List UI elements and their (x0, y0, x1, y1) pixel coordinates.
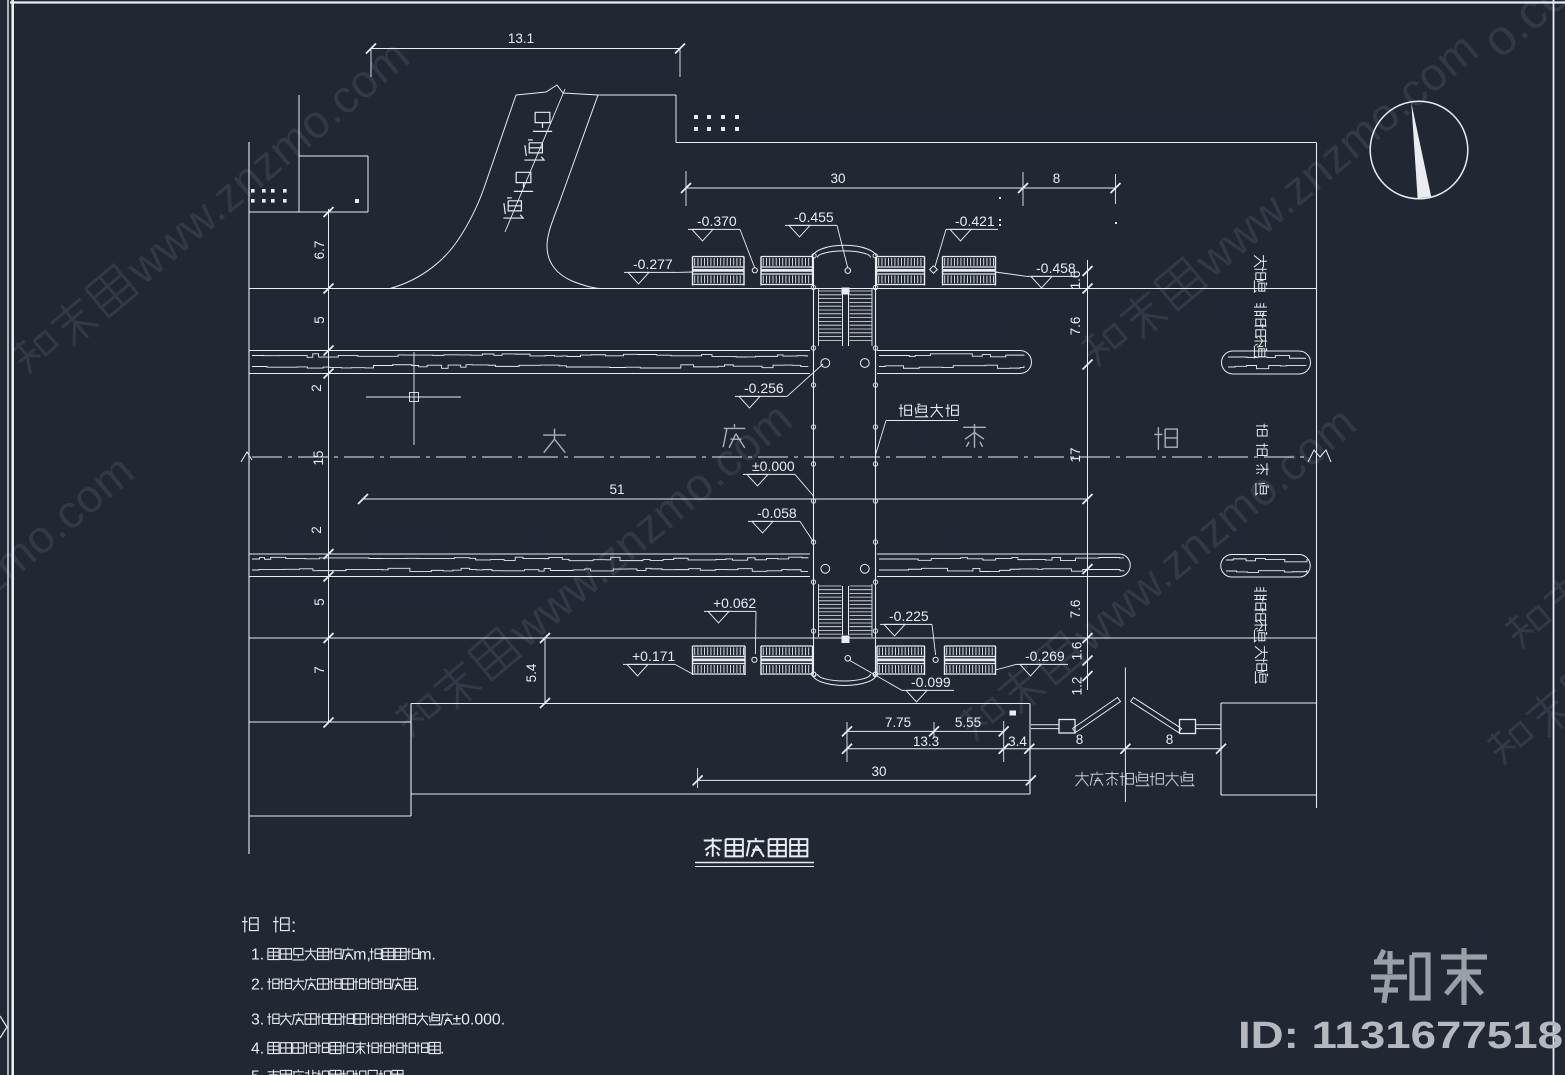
svg-text:17: 17 (1068, 447, 1083, 462)
svg-text:2: 2 (309, 526, 324, 534)
svg-text:±0.000.: ±0.000. (453, 1012, 506, 1029)
svg-text:±0.000: ±0.000 (752, 458, 795, 474)
svg-text:2: 2 (309, 384, 324, 392)
railing top-left A (693, 257, 745, 286)
school gate left leaf (1073, 698, 1121, 733)
school gate right leaf (1131, 698, 1182, 733)
watermark tiles (0, 0, 1565, 802)
sidewalk line left (248, 142, 250, 854)
school gate center line (1124, 668, 1126, 803)
street name 肖家台巷 (503, 112, 552, 218)
railing bottom-right C (877, 646, 925, 675)
svg-text:7.6: 7.6 (1068, 317, 1083, 336)
bridge stairs bottom (819, 584, 873, 643)
svg-text:-0.058: -0.058 (757, 505, 797, 521)
bridge bottom landing circle (845, 656, 851, 662)
median lower left (249, 554, 810, 577)
svg-text:-0.225: -0.225 (889, 608, 929, 624)
znzmo logo 知末 (1371, 948, 1487, 1005)
note line 2 (251, 977, 420, 994)
street Xiaojiataixiang left edge (390, 95, 516, 289)
dimension 30/8 top (681, 171, 1121, 226)
svg-text:13.3: 13.3 (913, 734, 939, 749)
dimension 5.4 (524, 633, 550, 708)
svg-text:30: 30 (830, 171, 845, 186)
svg-text:5.55: 5.55 (955, 715, 981, 730)
road bottom edge (249, 637, 1317, 639)
svg-text:1.2: 1.2 (1070, 677, 1085, 696)
svg-text:.: . (415, 977, 419, 994)
label 拟建天桥 (876, 404, 959, 455)
road centerline (241, 450, 1331, 462)
building top-left (249, 95, 368, 212)
median upper left (249, 351, 810, 374)
bridge pillar circles (821, 359, 869, 574)
svg-text:5: 5 (312, 598, 327, 606)
elevation +0.062 (704, 595, 756, 654)
svg-text:+0.062: +0.062 (713, 595, 756, 611)
median upper right (877, 351, 1031, 374)
school gate rails right (1196, 725, 1222, 729)
svg-text:5: 5 (312, 316, 327, 324)
railing top-left B (761, 257, 813, 286)
median capsule upper right (1222, 351, 1311, 374)
railing bottom-left B (761, 646, 813, 675)
dimension 51 (358, 482, 1093, 504)
note line 3 (251, 1012, 505, 1029)
note line 5 cut (251, 1069, 407, 1075)
svg-text:30: 30 (871, 764, 886, 779)
railing bottom-left A (693, 646, 746, 675)
svg-text:+0.171: +0.171 (632, 648, 675, 664)
svg-text:1.6: 1.6 (1070, 642, 1085, 661)
elevation -0.099 (849, 660, 954, 702)
dimension 7.75/5.55 (842, 715, 1009, 762)
svg-text:1.: 1. (251, 947, 264, 964)
svg-text:m,: m, (353, 947, 371, 964)
title 平面布置图 (695, 838, 814, 867)
railing post diamond top-right (930, 266, 938, 274)
svg-text:-0.455: -0.455 (794, 209, 834, 225)
bridge top landing circle (845, 268, 851, 274)
railing top-right D (943, 257, 996, 286)
railing post circle bottom-left (752, 657, 757, 662)
median lower right (877, 554, 1130, 577)
school name 大庆东路实验小学 (1075, 772, 1193, 787)
elevation -0.256 (735, 364, 823, 408)
railing post circle bottom-right (933, 657, 938, 662)
road name 大庆东路 (543, 424, 1177, 453)
elevation -0.370 (688, 213, 755, 268)
road top edge (249, 288, 1317, 290)
school gate right box (1180, 720, 1196, 734)
svg-text:-0.277: -0.277 (633, 256, 673, 272)
svg-text:.: . (440, 1041, 444, 1058)
railing top-right C (877, 257, 925, 286)
svg-text:13.1: 13.1 (508, 31, 534, 46)
elevation -0.269 (996, 648, 1069, 676)
svg-text:-0.256: -0.256 (744, 380, 784, 396)
sidewalk line right (1316, 143, 1318, 809)
svg-text:8: 8 (1053, 171, 1061, 186)
bridge top landing arc (813, 245, 877, 257)
svg-text:m.: m. (418, 947, 436, 964)
school gate left box (1059, 720, 1075, 734)
lane label 人行道 top (1254, 255, 1267, 292)
svg-text:-0.099: -0.099 (911, 674, 951, 690)
svg-text:ID: 1131677518: ID: 1131677518 (1238, 1015, 1563, 1057)
dots cluster right (694, 115, 739, 131)
bridge deck edges (814, 257, 876, 675)
lane label 非机动车道 top (1254, 303, 1267, 358)
znzmo ID (1238, 1015, 1563, 1057)
bridge bottom landing arc (812, 672, 878, 685)
svg-text:15: 15 (311, 450, 326, 465)
street right edge (547, 95, 600, 289)
svg-text:5.: 5. (251, 1069, 264, 1075)
dimension 13.3/3.4/8/8 (842, 732, 1226, 754)
elevation -0.225 (880, 608, 936, 655)
svg-text:8: 8 (1076, 732, 1084, 747)
street break top (516, 85, 598, 95)
note line 4 (251, 1041, 444, 1058)
school gate rails left (1031, 725, 1059, 729)
railing bottom-right D (945, 646, 996, 675)
svg-text:2.: 2. (251, 977, 264, 994)
elevation -0.277 (624, 256, 693, 284)
dimension 13.1 top (366, 31, 685, 77)
elevation -0.458 (996, 260, 1080, 288)
street center line (505, 89, 565, 232)
school right block (1221, 703, 1317, 795)
svg-text:7: 7 (312, 666, 327, 674)
dimension chain right (1068, 260, 1093, 695)
compass needle (1411, 103, 1431, 199)
dimension 30 bottom (693, 764, 1036, 788)
elevation +0.000 (743, 458, 814, 496)
svg-text:4.: 4. (251, 1041, 264, 1058)
elevation -0.421 (935, 213, 998, 267)
median capsule lower right (1221, 555, 1310, 578)
svg-text:7.75: 7.75 (885, 715, 911, 730)
lane label 非机动车道 bottom (1254, 587, 1267, 642)
elevation -0.455 (785, 209, 848, 268)
svg-text:3.: 3. (251, 1012, 264, 1029)
crosshair cursor (366, 352, 461, 445)
svg-text:.: . (403, 1069, 407, 1075)
svg-text:8: 8 (1166, 732, 1174, 747)
railing post circle top-left (752, 268, 757, 273)
compass circle (1370, 101, 1468, 199)
svg-text:51: 51 (609, 482, 624, 497)
svg-text:-0.370: -0.370 (697, 213, 737, 229)
svg-text:6.7: 6.7 (312, 241, 327, 260)
building top-right (598, 95, 1317, 143)
svg-text:3.4: 3.4 (1008, 734, 1027, 749)
svg-text:1.6: 1.6 (1068, 271, 1083, 290)
svg-text:7.6: 7.6 (1068, 600, 1083, 619)
notes heading 说明 (242, 916, 296, 937)
svg-text:-0.269: -0.269 (1025, 648, 1065, 664)
note line 1 (251, 947, 436, 964)
dots cluster left (251, 189, 287, 203)
bridge deck node circles (811, 254, 877, 677)
elevation -0.058 (748, 505, 814, 542)
svg-text::: : (291, 916, 296, 937)
elevation +0.171 (623, 648, 693, 676)
svg-text:5.4: 5.4 (524, 663, 539, 682)
svg-text:-0.421: -0.421 (955, 213, 995, 229)
school block outline (249, 704, 1030, 817)
lane label 机动车道 upper (1256, 424, 1269, 495)
sidewalk outer line bottom-left (249, 721, 411, 723)
bridge stairs top (819, 288, 873, 347)
lane label 人行道 bottom (1255, 646, 1268, 683)
dimension chain left (309, 207, 334, 728)
